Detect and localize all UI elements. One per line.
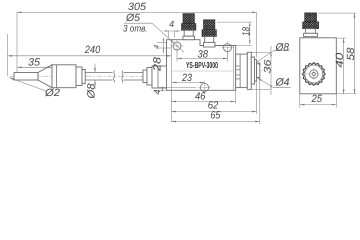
svg-text:23: 23 — [181, 72, 192, 84]
svg-text:46: 46 — [195, 90, 206, 102]
svg-text:4: 4 — [169, 19, 174, 29]
svg-text:65: 65 — [210, 109, 220, 121]
svg-text:3 отв.: 3 отв. — [123, 24, 148, 35]
svg-text:28: 28 — [152, 57, 164, 72]
svg-text:36: 36 — [262, 59, 273, 74]
svg-text:Ø2: Ø2 — [44, 87, 60, 99]
svg-text:18: 18 — [240, 27, 252, 36]
svg-text:40: 40 — [334, 53, 346, 68]
svg-text:58: 58 — [345, 47, 357, 60]
svg-text:4: 4 — [153, 44, 160, 48]
svg-text:35: 35 — [28, 57, 40, 69]
svg-text:Ø5: Ø5 — [125, 12, 140, 24]
svg-text:YS-BPV-3000: YS-BPV-3000 — [186, 60, 218, 70]
svg-text:Ø8: Ø8 — [86, 83, 98, 99]
svg-text:4: 4 — [152, 90, 162, 95]
svg-text:Ø8: Ø8 — [275, 41, 290, 53]
svg-text:240: 240 — [84, 44, 101, 56]
svg-text:Ø4: Ø4 — [275, 76, 290, 88]
svg-text:25: 25 — [311, 93, 323, 105]
svg-text:38: 38 — [198, 48, 209, 60]
svg-text:305: 305 — [128, 1, 146, 13]
